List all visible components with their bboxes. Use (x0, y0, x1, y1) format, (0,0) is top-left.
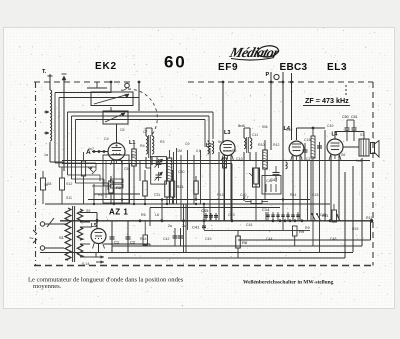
svg-text:L1: L1 (129, 140, 135, 146)
svg-text:C4: C4 (104, 137, 109, 141)
svg-text:C10: C10 (236, 157, 243, 161)
svg-text:2u: 2u (182, 224, 186, 228)
svg-text:EBC3: EBC3 (280, 62, 308, 73)
svg-text:L5: L5 (91, 223, 97, 229)
svg-text:S11: S11 (66, 196, 72, 200)
svg-text:C43: C43 (205, 237, 211, 241)
svg-text:EK2: EK2 (95, 61, 117, 72)
svg-text:C6: C6 (120, 128, 125, 132)
svg-text:EF9: EF9 (218, 62, 238, 73)
svg-text:S12: S12 (66, 182, 72, 186)
svg-text:C7: C7 (143, 130, 148, 134)
svg-text:L6: L6 (155, 213, 159, 217)
svg-text:50k: 50k (262, 125, 268, 129)
svg-text:S8: S8 (47, 182, 51, 186)
svg-text:P: P (266, 72, 270, 78)
svg-text:ZF = 473 kHz: ZF = 473 kHz (305, 96, 349, 105)
svg-text:~: ~ (29, 234, 34, 243)
svg-text:60: 60 (164, 53, 187, 72)
svg-text:C30: C30 (178, 170, 184, 174)
svg-text:C41: C41 (246, 223, 253, 227)
svg-text:C46: C46 (320, 213, 327, 217)
svg-text:L3: L3 (224, 130, 230, 136)
svg-text:R6: R6 (141, 213, 146, 217)
svg-text:L2: L2 (206, 143, 212, 149)
svg-text:C11: C11 (252, 133, 258, 137)
svg-text:R4: R4 (140, 144, 145, 148)
svg-text:R21: R21 (177, 184, 185, 189)
svg-text:2u: 2u (168, 224, 172, 228)
svg-text:S9: S9 (86, 209, 90, 213)
svg-text:C42: C42 (266, 179, 273, 183)
svg-text:C17: C17 (306, 157, 312, 161)
svg-text:R3: R3 (160, 140, 165, 144)
svg-text:Wellenbereichsschalter in MW-s: Wellenbereichsschalter in MW-stellung (243, 280, 334, 286)
svg-text:R12: R12 (273, 143, 279, 147)
svg-text:S.14: S.14 (82, 262, 89, 266)
svg-text:L4: L4 (332, 132, 338, 138)
svg-text:C5: C5 (124, 167, 129, 171)
svg-text:R15: R15 (352, 227, 358, 231)
svg-text:R.7: R.7 (243, 196, 249, 200)
svg-text:C49: C49 (327, 124, 333, 128)
svg-text:C18: C18 (312, 193, 318, 197)
svg-text:S7: S7 (360, 133, 364, 137)
svg-text:1a: 1a (44, 153, 48, 157)
svg-text:R9: R9 (305, 226, 310, 230)
svg-text:R1: R1 (98, 193, 103, 197)
svg-text:4n7: 4n7 (88, 147, 94, 151)
svg-text:C9: C9 (185, 142, 190, 146)
svg-text:C16: C16 (304, 138, 311, 142)
svg-text:50: 50 (131, 154, 135, 158)
svg-text:S6: S6 (341, 153, 345, 157)
svg-text:C14: C14 (262, 207, 270, 212)
svg-text:C13: C13 (228, 213, 235, 217)
svg-text:S1: S1 (59, 235, 65, 240)
svg-text:R11: R11 (366, 216, 372, 220)
svg-text:C42: C42 (163, 237, 169, 241)
svg-text:1n5: 1n5 (356, 159, 362, 163)
svg-text:0,1: 0,1 (196, 149, 201, 153)
svg-text:C31: C31 (154, 193, 160, 197)
svg-text:5n6: 5n6 (238, 123, 245, 128)
svg-text:1M: 1M (177, 149, 182, 153)
svg-text:AZ 1: AZ 1 (109, 208, 128, 217)
svg-text:EL3: EL3 (327, 62, 347, 73)
svg-text:R9: R9 (299, 229, 305, 234)
svg-text:R10: R10 (258, 143, 265, 147)
svg-text:R13: R13 (217, 193, 223, 197)
svg-text:R2: R2 (116, 185, 122, 190)
svg-text:C50: C50 (342, 115, 349, 119)
svg-text:C51: C51 (351, 115, 358, 119)
svg-text:moyennes.: moyennes. (33, 283, 62, 290)
svg-text:S10: S10 (286, 128, 292, 132)
svg-text:R14: R14 (290, 193, 296, 197)
svg-text:T.: T. (42, 69, 47, 75)
svg-text:C41: C41 (192, 225, 200, 230)
svg-text:5n5: 5n5 (218, 140, 224, 144)
svg-text:R5: R5 (232, 149, 237, 153)
svg-text:C45: C45 (201, 208, 209, 213)
svg-text:R8: R8 (242, 240, 248, 245)
